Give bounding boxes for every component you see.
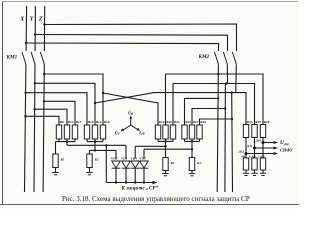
svg-text:R4: R4 [197,161,201,165]
svg-text:R17: R17 [76,120,82,124]
svg-text:VD3: VD3 [139,156,146,160]
resistor R29 [251,158,257,176]
wire bus h1 Z to R19 drop [44,74,103,125]
wire phase Z vertical [43,6,45,192]
wire right bank bus group1 [158,140,173,142]
resistor R18 [197,120,206,141]
svg-text:U̇с: U̇с [115,130,120,135]
svg-text:К защите „СР”: К защите „СР” [121,186,159,191]
resistor R2 [86,142,116,175]
svg-text:R23: R23 [247,120,253,124]
wire bus h5 Y to R12 drop [35,109,67,125]
wire phase Y vertical [34,6,35,192]
wire bottom bus to protection [106,182,152,184]
page border bottom [0,204,299,206]
svg-text:R27: R27 [193,120,199,124]
svg-text:Д12: Д12 [238,150,245,154]
svg-text:R24: R24 [174,120,180,124]
svg-text:U̇в: U̇в [139,131,144,136]
svg-text:КМ2: КМ2 [198,54,210,60]
wire feeder Y to KM2 col2 [35,35,227,52]
wire busR1 to bottom bus and VD1 [67,142,126,183]
svg-text:R3: R3 [171,161,175,165]
svg-text:Д10: Д10 [255,139,262,143]
page border left [2,2,4,205]
resistor R10 [84,120,93,141]
resistor R27 [189,120,198,141]
resistor R1 [52,142,64,175]
svg-text:R2: R2 [95,158,99,162]
svg-text:VD2: VD2 [111,156,118,160]
svg-text:VD4: VD4 [130,156,137,160]
resistor R22 [182,120,191,141]
wire left bank bus group2 [87,141,103,143]
wire bus h4 Z to R17 drop [44,101,75,125]
wire bus A [166,74,264,125]
svg-text:СИФУ: СИФУ [280,147,294,152]
resistor R3 [162,146,174,175]
svg-text:Д11: Д11 [246,144,253,148]
svg-text:Рис. 3.18. Схема выделения упр: Рис. 3.18. Схема выделения управляющего … [62,195,250,203]
wire col3 to R18 drop [200,119,233,125]
resistor R8 [56,120,64,141]
svg-text:R1: R1 [61,158,65,162]
svg-text:Uупр: Uупр [280,140,289,146]
contact KM1 blade phase Y [31,52,35,64]
resistor R20 [163,120,172,141]
wire bus h2 Y to R14 drop [35,83,95,125]
svg-text:R8: R8 [60,120,64,124]
node D11 output [253,147,256,150]
svg-text:R28: R28 [264,120,270,124]
svg-text:R22: R22 [185,120,191,124]
diode VD4 [130,156,139,182]
svg-text:VD1: VD1 [121,156,128,160]
page border top [2,1,298,3]
svg-text:Z: Z [38,17,43,23]
vector diagram Ua Ub Uc [121,115,140,131]
resistor R24 [170,120,179,141]
wire KM2 col3 vertical [232,64,237,192]
wire VD2 feed [115,150,117,158]
svg-text:Y: Y [30,17,35,23]
svg-text:R20: R20 [166,120,172,124]
wire col2 to R27 drop [192,109,225,126]
resistor R4 [189,149,201,176]
svg-text:R19: R19 [104,120,110,124]
wire right bank bus group2 [185,140,200,142]
wire busR3 to VD4 [135,141,165,158]
wire diagonal d1 to right bank [103,93,158,125]
wire left bank bus group1 [56,141,76,143]
resistor R25 [252,120,261,158]
wire phase X vertical [25,6,27,192]
contact KM2 blade col3 [232,52,236,64]
resistor R31 [260,158,266,176]
wire bus h6 X to R8 drop [25,116,59,125]
diode VD1 [121,156,130,182]
resistor R17 [72,120,81,141]
svg-text:X: X [19,17,25,23]
resistor R12 [64,120,73,141]
svg-text:U̇а: U̇а [128,110,134,115]
wire KM2 col2 vertical [225,64,228,192]
contact KM2 blade col2 [223,52,227,64]
resistor R19 [100,120,109,141]
contact KM1 blade phase X [22,52,26,64]
resistor R26 [243,158,249,176]
svg-text:R18: R18 [200,120,206,124]
wire col1 to R22 drop [185,98,219,125]
diode VD2 [111,156,120,182]
node D12 output [245,152,248,155]
resistor R23 [243,120,252,158]
svg-text:R16: R16 [159,120,165,124]
svg-text:R14: R14 [96,120,102,124]
svg-text:R10: R10 [88,120,94,124]
wire KM2 col1 vertical [217,64,218,192]
svg-text:КМ1: КМ1 [6,55,18,61]
node D10 output [262,141,265,144]
diode VD3 [139,156,148,182]
contact KM2 blade col1 [215,52,219,64]
contact KM1 blade phase Z [40,52,44,64]
wire busR4 to VD3 [144,141,192,158]
wire bus h3 X to R10 drop [26,93,87,125]
resistor R14 [92,120,101,141]
svg-text:R12: R12 [68,120,74,124]
svg-text:R25: R25 [255,120,261,124]
wire feeder Z to KM2 col3 [44,24,236,51]
resistor R16 [155,120,164,141]
wire diagonal d2 to bus C far right [95,93,246,125]
wire bus B [173,84,255,126]
resistor R28 [260,120,269,158]
wire feeder X to KM2 col1 [26,43,218,51]
